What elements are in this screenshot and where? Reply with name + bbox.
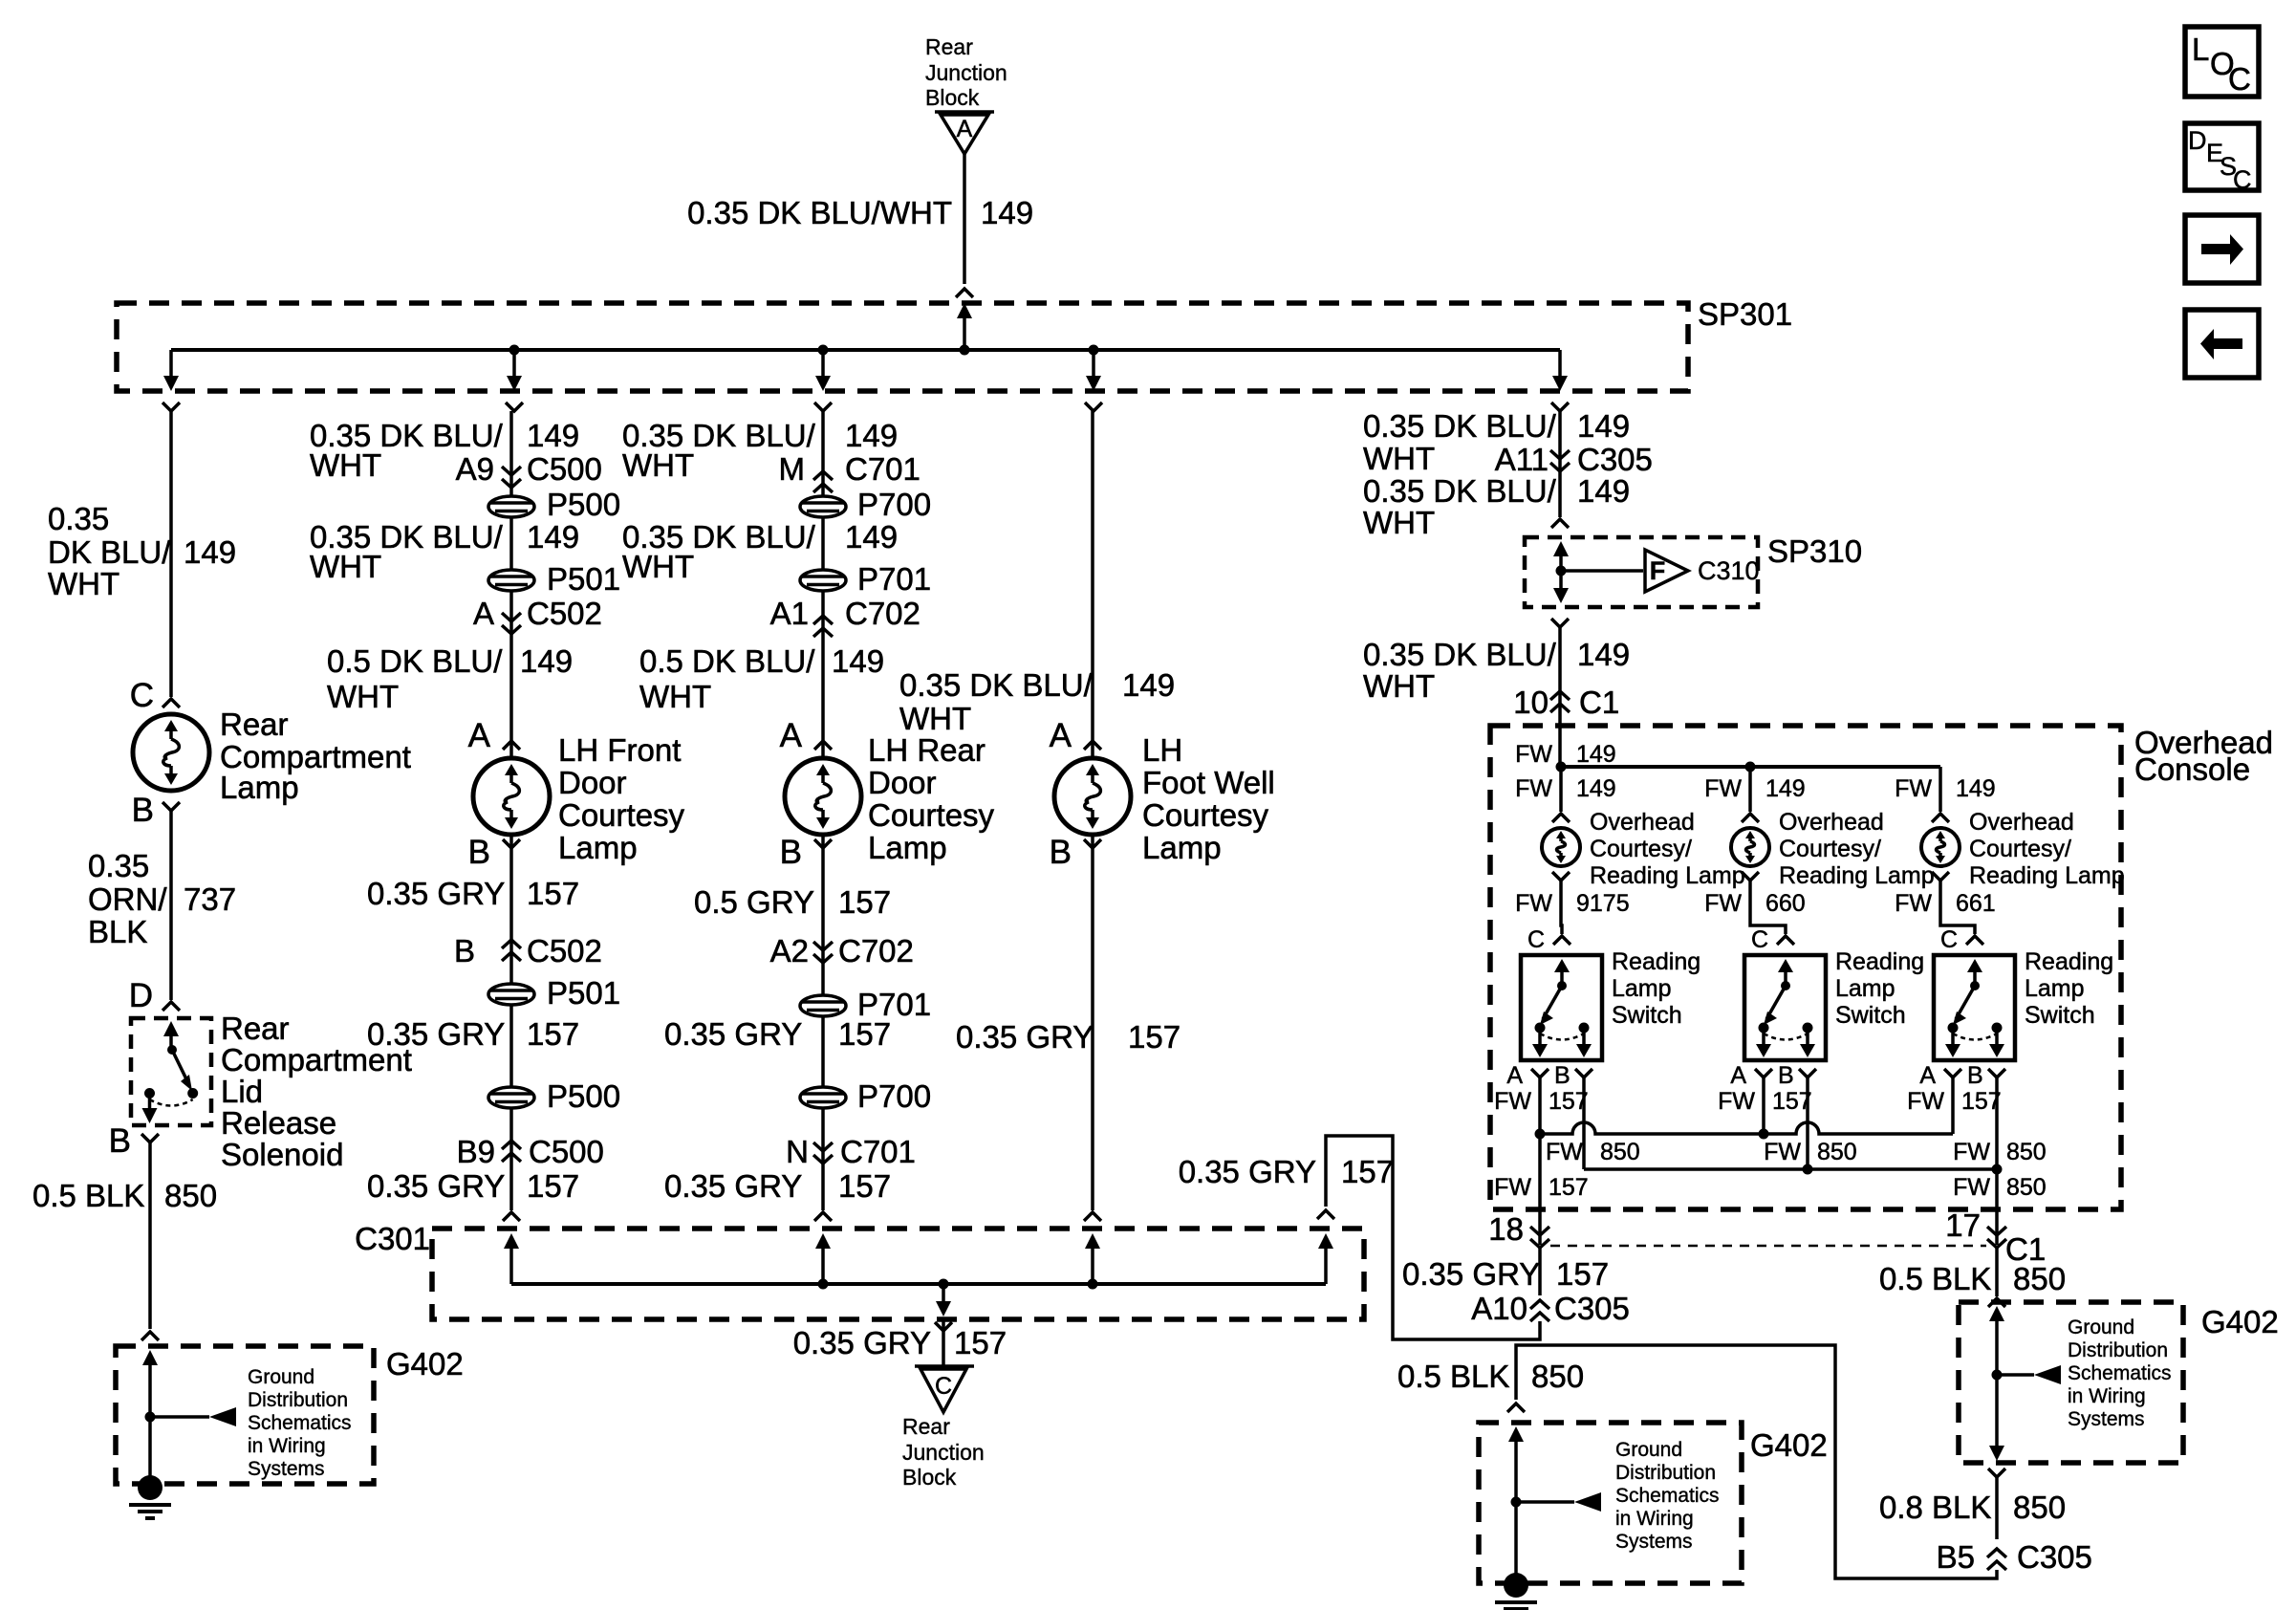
svg-text:B: B — [780, 834, 802, 871]
svg-text:D: D — [129, 977, 153, 1014]
terminal chevron below lamp 3 — [1932, 872, 1949, 881]
label FW 149 feed — [1515, 741, 1616, 768]
connector A2 C702 — [770, 933, 914, 968]
Ground Distribution Schematics in Wiring Systems label (right) — [2068, 1316, 2172, 1430]
svg-text:A: A — [468, 717, 491, 754]
svg-text:A11: A11 — [1495, 442, 1549, 477]
svg-text:P500: P500 — [547, 1078, 620, 1114]
LOC box — [2185, 27, 2259, 97]
inline connector P501 — [488, 975, 620, 1011]
junction dot col2 — [509, 345, 520, 356]
junction dot console b1 — [1556, 762, 1567, 772]
connector A9 C500 — [456, 451, 602, 488]
branch 1 wire — [1559, 767, 1563, 812]
svg-text:Reading: Reading — [1612, 948, 1700, 975]
arrow up inside right G402 — [1989, 1306, 2004, 1449]
wire col1 lower — [148, 1142, 152, 1329]
svg-text:Systems: Systems — [1615, 1531, 1693, 1553]
svg-text:Reading: Reading — [2025, 948, 2113, 975]
svg-text:Ground: Ground — [248, 1366, 314, 1388]
terminal chevron below SP301 col3 — [814, 402, 832, 411]
terminal chevron above left G402 — [141, 1332, 159, 1340]
terminal chevron above right G402 — [1988, 1298, 2005, 1307]
arrow down inside SP310 — [1553, 588, 1569, 603]
wire switch3 pin A down — [1951, 1077, 1955, 1134]
reading lamp switch 3 — [1934, 955, 2015, 1060]
svg-text:Lamp: Lamp — [1142, 830, 1222, 865]
svg-text:F: F — [1650, 556, 1666, 585]
svg-text:A: A — [1050, 717, 1072, 754]
pointer to Ground Distribution Schematics (right) — [1997, 1365, 2061, 1384]
junction dot B-bus switch2 — [1803, 1164, 1813, 1175]
svg-text:0.35 DK BLU/: 0.35 DK BLU/ — [1363, 637, 1557, 672]
label 0.35 GRY 157 (C301 right) — [1179, 1154, 1394, 1189]
label 0.8 BLK 850 — [1879, 1490, 2066, 1525]
svg-text:0.35 GRY: 0.35 GRY — [367, 876, 505, 911]
connector N C701 — [786, 1134, 916, 1169]
svg-text:Door: Door — [868, 765, 937, 800]
svg-text:C: C — [2233, 165, 2252, 194]
SP301 exit arrow col4 — [1086, 350, 1101, 391]
svg-text:Reading Lamp: Reading Lamp — [1590, 862, 1745, 889]
svg-text:149: 149 — [527, 519, 579, 555]
arrow up inside middle G402 — [1508, 1426, 1524, 1583]
svg-text:A10: A10 — [1471, 1291, 1527, 1326]
arrow up into C301 col4 — [1085, 1233, 1100, 1284]
Ground Distribution Schematics in Wiring Systems label (left) — [248, 1366, 352, 1480]
svg-text:C: C — [935, 1373, 952, 1400]
overhead console box — [1490, 726, 2121, 1209]
svg-text:FW: FW — [1546, 1139, 1583, 1165]
wire col1 mid — [169, 811, 173, 1000]
svg-text:BLK: BLK — [88, 914, 147, 949]
inline connector P700 — [800, 487, 931, 522]
label FW 9175 — [1515, 890, 1630, 917]
svg-text:149: 149 — [981, 195, 1033, 230]
terminal chevron pin B — [162, 802, 180, 811]
svg-text:0.5 GRY: 0.5 GRY — [694, 884, 814, 920]
junction dot col4 — [1089, 345, 1099, 356]
svg-text:C: C — [1940, 926, 1958, 953]
junction dot C301 drop — [939, 1279, 949, 1290]
arrow up into C301 right stub — [1318, 1233, 1333, 1284]
svg-text:C310: C310 — [1698, 556, 1760, 585]
ground distribution box G402 (left) — [116, 1346, 374, 1484]
svg-text:157: 157 — [1549, 1174, 1589, 1201]
wire switch3 pin B down — [1995, 1077, 1999, 1245]
B-bus FW850 — [1584, 1167, 1997, 1171]
svg-text:D: D — [2188, 126, 2207, 155]
svg-text:C305: C305 — [2017, 1539, 2092, 1575]
ground distribution box G402 (right) — [1959, 1302, 2183, 1463]
svg-text:Distribution: Distribution — [248, 1389, 348, 1411]
svg-text:WHT: WHT — [327, 679, 399, 714]
label 0.35 GRY 157 col2 a — [367, 876, 579, 911]
svg-text:M: M — [779, 451, 806, 487]
svg-text:C: C — [1527, 926, 1545, 953]
svg-text:0.35 GRY: 0.35 GRY — [367, 1168, 505, 1204]
svg-text:Ground: Ground — [1615, 1439, 1682, 1461]
svg-text:FW: FW — [1704, 775, 1742, 802]
label 0.35 DK BLU/WHT 149 col2 row2 — [310, 519, 579, 584]
svg-text:SP301: SP301 — [1698, 296, 1792, 332]
svg-text:Distribution: Distribution — [1615, 1462, 1716, 1484]
svg-text:A: A — [1730, 1062, 1746, 1089]
console bus wire — [1561, 765, 1940, 769]
svg-text:LH Front: LH Front — [558, 732, 681, 768]
label 0.35 GRY 157 (bottom) — [793, 1325, 1007, 1360]
svg-text:Switch: Switch — [2025, 1002, 2095, 1029]
label FW 157 switch 3 — [1907, 1088, 2002, 1115]
svg-text:C: C — [2228, 61, 2251, 97]
svg-text:Switch: Switch — [1612, 1002, 1682, 1029]
wire lamp 3 to switch (jog) — [1940, 881, 1975, 934]
label 0.35 DK BLU/WHT 149 col5 row2 — [1363, 473, 1630, 540]
svg-text:149: 149 — [1122, 667, 1175, 703]
svg-text:157: 157 — [527, 1016, 579, 1052]
svg-text:Courtesy/: Courtesy/ — [1779, 836, 1881, 862]
overhead courtesy reading lamp 1 — [1542, 828, 1580, 866]
label 0.35 GRY 157 col3 b — [664, 1016, 891, 1052]
junction dot A-bus switch1 — [1535, 1129, 1546, 1140]
arrow down exiting right G402 — [1989, 1446, 2004, 1461]
inline connector P501 — [488, 561, 620, 597]
svg-text:C500: C500 — [527, 451, 602, 487]
svg-text:850: 850 — [2006, 1139, 2047, 1165]
terminal chevron above SP301 — [956, 289, 973, 297]
svg-text:in Wiring: in Wiring — [248, 1435, 326, 1457]
pointer to Ground Distribution Schematics (left) — [150, 1407, 236, 1426]
terminal chevron below SP301 col5 — [1551, 402, 1569, 411]
wire label 0.35 DK BLU/WHT 149 — [687, 195, 1033, 230]
svg-text:Solenoid: Solenoid — [221, 1137, 343, 1172]
SP301 exit arrow col1 — [163, 350, 179, 391]
junction dot middle G402 — [1511, 1497, 1522, 1508]
svg-text:G402: G402 — [1750, 1427, 1828, 1463]
junction dot B-bus switch3 — [1992, 1164, 2003, 1175]
label 0.35 GRY 157 col4 — [956, 1019, 1180, 1055]
svg-text:0.5 BLK: 0.5 BLK — [1397, 1359, 1509, 1394]
wire col3 — [821, 411, 825, 1210]
junction dot col3 — [818, 345, 829, 356]
svg-text:B5: B5 — [1937, 1539, 1975, 1575]
bus wire inside SP301 — [171, 348, 1560, 352]
svg-text:C: C — [1751, 926, 1768, 953]
svg-text:B: B — [132, 792, 154, 829]
power triangle A (Rear Junction Block) — [935, 112, 994, 154]
svg-text:0.5 DK BLU/: 0.5 DK BLU/ — [639, 643, 815, 679]
connector B9 C500 — [457, 1134, 604, 1169]
wire 17 to right G402 — [1995, 1248, 1999, 1296]
connector B C502 — [454, 933, 602, 968]
svg-text:Overhead: Overhead — [1969, 809, 2074, 836]
label FW 850 b1 — [1546, 1139, 1640, 1165]
terminal chevron right stub above C301 — [1317, 1210, 1334, 1219]
label FW 660 — [1704, 890, 1806, 917]
svg-text:0.35 GRY: 0.35 GRY — [956, 1019, 1094, 1055]
svg-text:157: 157 — [1128, 1019, 1180, 1055]
label FW 850 exit — [1953, 1174, 2047, 1201]
svg-text:FW: FW — [1764, 1139, 1801, 1165]
terminal chevron above SP310 — [1551, 519, 1569, 528]
svg-text:C305: C305 — [1577, 442, 1653, 477]
svg-text:FW: FW — [1494, 1174, 1531, 1201]
svg-text:17: 17 — [1945, 1207, 1981, 1243]
svg-text:WHT: WHT — [639, 679, 711, 714]
svg-text:0.35 DK BLU/WHT: 0.35 DK BLU/WHT — [687, 195, 952, 230]
LH front door courtesy lamp — [473, 758, 550, 835]
svg-text:Courtesy: Courtesy — [558, 797, 685, 833]
svg-text:149: 149 — [1577, 637, 1630, 672]
label FW 157 switch 1 — [1494, 1088, 1589, 1115]
Rear Compartment Lid Release Solenoid label — [221, 1011, 412, 1172]
svg-text:WHT: WHT — [1363, 441, 1435, 476]
inline connector P701 — [800, 561, 931, 597]
ground distribution box G402 (middle) — [1479, 1423, 1742, 1583]
label 0.35 DK BLU/WHT 149 col3 row1 — [622, 418, 898, 483]
svg-text:850: 850 — [2013, 1490, 2066, 1525]
svg-text:0.35 DK BLU/: 0.35 DK BLU/ — [1363, 408, 1557, 444]
svg-text:660: 660 — [1765, 890, 1806, 917]
label FW 850 b2 — [1764, 1139, 1857, 1165]
connector A10 C305 — [1471, 1291, 1630, 1326]
svg-text:149: 149 — [1765, 775, 1806, 802]
svg-text:157: 157 — [838, 1168, 891, 1204]
svg-text:0.35 GRY: 0.35 GRY — [664, 1168, 802, 1204]
svg-text:C1: C1 — [1579, 685, 1619, 720]
C301 drop wire with arrow down — [936, 1284, 951, 1316]
svg-text:A: A — [957, 116, 973, 142]
overhead courtesy reading lamp 3 — [1921, 828, 1960, 866]
wire lamp 1 to switch (jog) — [1561, 881, 1562, 934]
svg-text:0.35: 0.35 — [48, 501, 109, 536]
Reading Lamp Switch label 1 — [1612, 948, 1700, 1029]
svg-text:Schematics: Schematics — [1615, 1485, 1720, 1507]
reading lamp switch 1 — [1521, 955, 1602, 1060]
svg-text:C502: C502 — [527, 933, 602, 968]
svg-text:Rear: Rear — [902, 1414, 950, 1439]
svg-text:FW: FW — [1515, 741, 1552, 768]
branch 3 wire — [1939, 767, 1942, 812]
svg-text:737: 737 — [184, 881, 236, 917]
connector C1 dashed line — [1550, 1245, 1986, 1248]
svg-text:149: 149 — [832, 643, 884, 679]
wire switch2 pin B down — [1806, 1077, 1809, 1169]
svg-text:N: N — [786, 1134, 809, 1169]
svg-text:WHT: WHT — [622, 447, 694, 483]
svg-text:WHT: WHT — [622, 549, 694, 584]
svg-text:B: B — [109, 1122, 131, 1160]
svg-text:B: B — [1778, 1062, 1794, 1089]
svg-text:Courtesy: Courtesy — [1142, 797, 1269, 833]
svg-text:C301: C301 — [355, 1221, 430, 1256]
junction dot C301 col3 — [818, 1279, 829, 1290]
svg-text:C502: C502 — [527, 596, 602, 631]
connector 10 C1 — [1513, 685, 1619, 720]
svg-text:Lamp: Lamp — [558, 830, 638, 865]
svg-text:FW: FW — [1718, 1088, 1755, 1115]
svg-text:850: 850 — [164, 1178, 217, 1213]
terminal chevron above lamp 2 — [1742, 814, 1759, 822]
svg-text:157: 157 — [527, 876, 579, 911]
svg-text:Lamp: Lamp — [1612, 975, 1672, 1002]
svg-text:Courtesy: Courtesy — [868, 797, 995, 833]
terminal chevron below SP301 col4 — [1085, 402, 1102, 411]
svg-text:C500: C500 — [529, 1134, 604, 1169]
inline connector P500 — [488, 487, 620, 522]
svg-text:0.35: 0.35 — [88, 848, 149, 883]
terminal chevron above triangle C — [935, 1322, 952, 1331]
label 0.35 GRY 157 (18) — [1402, 1256, 1609, 1292]
label 0.5 BLK 850 (middle) — [1397, 1359, 1584, 1394]
svg-text:0.35 GRY: 0.35 GRY — [1402, 1256, 1540, 1292]
svg-text:Rear: Rear — [220, 707, 289, 742]
C301 internal bus — [511, 1282, 1326, 1286]
svg-text:Reading Lamp: Reading Lamp — [1969, 862, 2125, 889]
svg-text:B9: B9 — [457, 1134, 495, 1169]
label 0.35 GRY 157 col2 c — [367, 1168, 579, 1204]
label 0.35 GRY 157 col3 c — [664, 1168, 891, 1204]
svg-text:850: 850 — [1531, 1359, 1584, 1394]
pin 17 — [1945, 1207, 2006, 1248]
arrow up into C301 col3 — [815, 1233, 831, 1284]
svg-text:Courtesy/: Courtesy/ — [1590, 836, 1692, 862]
label 0.35 DK BLU/WHT 149 col1 — [48, 501, 236, 601]
svg-text:P501: P501 — [547, 975, 620, 1011]
svg-text:Ground: Ground — [2068, 1316, 2134, 1338]
svg-text:LH: LH — [1142, 732, 1182, 768]
Rear Junction Block label (top) — [925, 34, 1007, 110]
svg-text:in Wiring: in Wiring — [2068, 1385, 2146, 1407]
DESC box — [2185, 123, 2259, 194]
svg-text:WHT: WHT — [310, 549, 381, 584]
svg-text:Systems: Systems — [2068, 1408, 2145, 1430]
svg-text:Overhead: Overhead — [1590, 809, 1695, 836]
Reading Lamp Switch label 3 — [2025, 948, 2113, 1029]
svg-text:0.35 GRY: 0.35 GRY — [1179, 1154, 1316, 1189]
svg-text:0.35 GRY: 0.35 GRY — [664, 1016, 802, 1052]
arrow up inside left G402 — [142, 1350, 158, 1484]
Overhead Courtesy/Reading Lamp label 2 — [1779, 809, 1935, 889]
terminal chevron below lamp 2 — [1742, 872, 1759, 881]
junction dot console b2 — [1745, 762, 1756, 772]
terminal chevron below SP301 col2 — [506, 402, 523, 411]
svg-text:FW: FW — [1515, 890, 1552, 917]
svg-text:157: 157 — [1341, 1154, 1394, 1189]
LH Foot Well Courtesy Lamp label — [1142, 732, 1275, 865]
label 0.5 GRY 157 col3 — [694, 884, 891, 920]
svg-text:Release: Release — [221, 1105, 336, 1141]
svg-text:P701: P701 — [857, 561, 931, 597]
label 0.5 BLK 850 col1 — [32, 1178, 217, 1213]
wire col5 upper — [1558, 411, 1562, 517]
svg-text:Schematics: Schematics — [2068, 1362, 2172, 1384]
wire B5 branch — [1995, 1477, 1999, 1539]
junction dot A-bus switch2 — [1759, 1129, 1769, 1140]
svg-text:157: 157 — [838, 1016, 891, 1052]
svg-text:G402: G402 — [386, 1346, 464, 1382]
label FW 149 branch 3 — [1895, 775, 1996, 802]
svg-text:157: 157 — [527, 1168, 579, 1204]
svg-text:Distribution: Distribution — [2068, 1339, 2168, 1361]
svg-text:850: 850 — [1600, 1139, 1640, 1165]
svg-text:P501: P501 — [547, 561, 620, 597]
label 0.35 DK BLU/WHT 149 col2 row1 — [310, 418, 579, 483]
svg-text:FW: FW — [1515, 775, 1552, 802]
arrow up inside SP310 — [1553, 541, 1569, 593]
svg-text:0.35 GRY: 0.35 GRY — [367, 1016, 505, 1052]
svg-text:WHT: WHT — [1363, 668, 1435, 704]
A-bus FW157 with hops — [1540, 1122, 1953, 1134]
label FW 850 b3 — [1953, 1139, 2047, 1165]
svg-text:149: 149 — [1956, 775, 1996, 802]
svg-text:P700: P700 — [857, 1078, 931, 1114]
svg-text:P500: P500 — [547, 487, 620, 522]
svg-text:in Wiring: in Wiring — [1615, 1508, 1694, 1530]
svg-text:0.35 DK BLU/: 0.35 DK BLU/ — [899, 667, 1094, 703]
svg-text:Console: Console — [2134, 751, 2250, 787]
power triangle C (Rear Junction Block bottom) — [915, 1366, 974, 1412]
svg-text:ORN/: ORN/ — [88, 881, 167, 917]
terminal chevron pin C — [162, 699, 180, 707]
svg-text:WHT: WHT — [1363, 505, 1435, 540]
svg-text:661: 661 — [1956, 890, 1996, 917]
label 0.35 DK BLU/WHT 149 col5 row3 — [1363, 637, 1630, 704]
svg-text:0.5 BLK: 0.5 BLK — [32, 1178, 144, 1213]
terminal chevron below right G402 — [1988, 1469, 2005, 1477]
svg-text:Rear: Rear — [925, 34, 973, 59]
connector box C301 — [432, 1229, 1364, 1319]
svg-text:A9: A9 — [456, 451, 494, 487]
terminal chevron pin D — [162, 1002, 180, 1011]
connector B5 C305 — [1937, 1539, 2092, 1575]
connector A1 C702 — [770, 596, 921, 637]
svg-text:149: 149 — [845, 519, 898, 555]
splice box SP301 — [117, 303, 1688, 391]
rear compartment lid release solenoid switch — [131, 1018, 211, 1125]
svg-text:Block: Block — [925, 85, 980, 110]
terminal chevron below SP310 — [1551, 619, 1569, 627]
LH Front Door Courtesy Lamp label — [558, 732, 685, 865]
terminal chevron above middle G402 — [1507, 1403, 1525, 1412]
arrow up into C301 col2 — [504, 1233, 519, 1284]
svg-text:157: 157 — [838, 884, 891, 920]
connector A11 C305 — [1495, 442, 1653, 477]
svg-text:9175: 9175 — [1576, 890, 1630, 917]
wire A10 route to C301 — [1326, 1136, 1540, 1339]
svg-text:149: 149 — [1577, 473, 1630, 509]
inline connector P701 — [800, 987, 931, 1022]
arrow up into SP301 — [957, 303, 972, 350]
junction dot C301 col4 — [1088, 1279, 1098, 1290]
SP301 exit arrow col3 — [815, 350, 831, 391]
SP301 exit arrow col2 — [507, 350, 522, 391]
Rear Junction Block label (bottom) — [902, 1414, 985, 1490]
svg-text:157: 157 — [1556, 1256, 1609, 1292]
pin 18 — [1488, 1211, 1549, 1248]
svg-text:Courtesy/: Courtesy/ — [1969, 836, 2071, 862]
junction dot feed — [960, 345, 970, 356]
junction dot right G402 — [1992, 1370, 2003, 1381]
svg-text:FW: FW — [1494, 1088, 1531, 1115]
svg-text:Rear: Rear — [221, 1011, 290, 1046]
svg-text:C701: C701 — [845, 451, 921, 487]
svg-text:C: C — [130, 677, 154, 714]
svg-text:850: 850 — [2013, 1261, 2066, 1296]
svg-text:Foot Well: Foot Well — [1142, 765, 1275, 800]
svg-text:P700: P700 — [857, 487, 931, 522]
connector M C701 — [779, 451, 921, 492]
